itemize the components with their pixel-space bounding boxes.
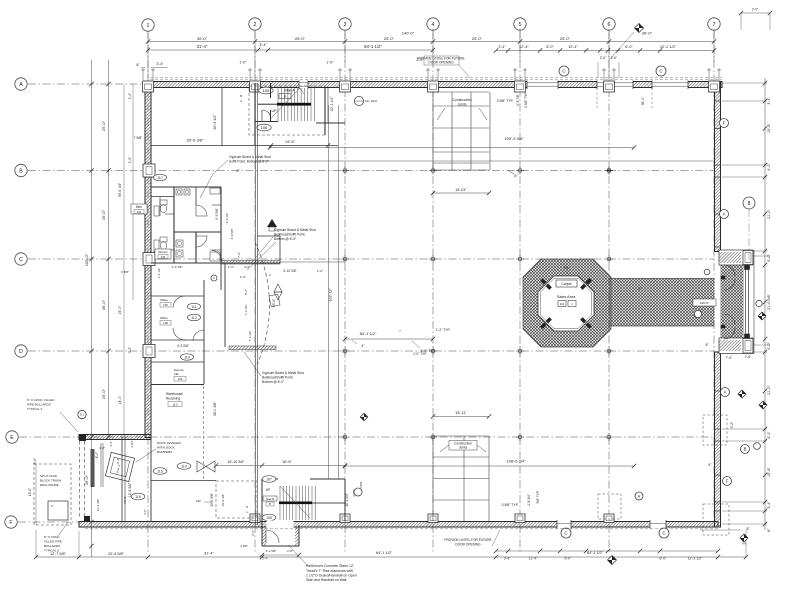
svg-text:6'-0": 6'-0" <box>565 557 573 561</box>
svg-text:7 5/8": 7 5/8" <box>134 136 144 140</box>
svg-text:7: 7 <box>713 22 716 28</box>
svg-text:4'-0": 4'-0" <box>99 446 105 450</box>
svg-text:Bottom @ 8'-0": Bottom @ 8'-0" <box>274 237 297 241</box>
svg-text:38'-0 3/8": 38'-0 3/8" <box>213 401 217 416</box>
svg-text:C: C <box>213 276 215 280</box>
svg-text:4 3/8": 4 3/8" <box>240 544 248 548</box>
svg-text:3 5/8": 3 5/8" <box>121 270 129 274</box>
svg-text:Reinforced Concrete Stairs 12": Reinforced Concrete Stairs 12" <box>306 564 355 568</box>
svg-text:21'-0": 21'-0" <box>767 385 771 395</box>
svg-text:19'-0": 19'-0" <box>118 305 122 314</box>
svg-text:15'-01": 15'-01" <box>455 188 467 192</box>
svg-text:19'-5": 19'-5" <box>285 139 296 144</box>
svg-text:14'-0": 14'-0" <box>118 395 122 404</box>
svg-text:3'-0 1/4": 3'-0 1/4" <box>225 213 229 224</box>
svg-text:10'-4": 10'-4" <box>568 45 578 49</box>
svg-text:8'-0": 8'-0" <box>33 458 37 464</box>
svg-text:30'-9 1/2": 30'-9 1/2" <box>213 114 217 130</box>
svg-text:117: 117 <box>157 176 163 180</box>
svg-text:WITH DOCK: WITH DOCK <box>157 446 176 450</box>
svg-text:2'-0": 2'-0" <box>143 509 147 515</box>
svg-text:Tread's 7" Rise Maximum with: Tread's 7" Rise Maximum with <box>306 569 353 573</box>
svg-text:FILLED PIPE: FILLED PIPE <box>44 540 62 544</box>
svg-text:108'-0": 108'-0" <box>700 301 709 305</box>
svg-text:3 5/8" TYP.: 3 5/8" TYP. <box>502 503 519 507</box>
svg-text:1 5/8" TYP.: 1 5/8" TYP. <box>524 92 528 108</box>
svg-text:Sec. Reinf.: Sec. Reinf. <box>365 99 378 103</box>
svg-text:1'-4 1/4": 1'-4 1/4" <box>157 268 161 279</box>
svg-text:Gypsum Board & Metal Stud: Gypsum Board & Metal Stud <box>262 371 304 375</box>
svg-text:Bulkhead/Soffit Point.: Bulkhead/Soffit Point. <box>262 376 294 380</box>
svg-text:Office: Office <box>160 316 168 320</box>
svg-text:64'-1 1/2": 64'-1 1/2" <box>364 44 382 49</box>
svg-text:Tile: Tile <box>563 266 568 270</box>
svg-text:101: 101 <box>560 302 565 306</box>
svg-text:12'-2 1/2": 12'-2 1/2" <box>688 557 704 561</box>
svg-text:1'-0": 1'-0" <box>240 275 246 279</box>
svg-text:21'-0": 21'-0" <box>767 209 771 219</box>
svg-text:10'-0 3/8": 10'-0 3/8" <box>221 494 225 507</box>
svg-text:3'-4": 3'-4" <box>498 45 506 49</box>
svg-text:Office: Office <box>160 298 168 302</box>
svg-text:108: 108 <box>163 321 168 325</box>
svg-text:1'-0": 1'-0" <box>326 61 334 65</box>
svg-text:4'-0": 4'-0" <box>767 342 771 350</box>
svg-text:15'-11": 15'-11" <box>455 411 467 415</box>
svg-text:25'-0": 25'-0" <box>101 120 106 131</box>
svg-text:1'-8 7/8": 1'-8 7/8" <box>516 94 520 106</box>
svg-text:C: C <box>659 69 662 74</box>
svg-text:B: B <box>240 94 242 98</box>
svg-text:C: C <box>662 531 665 536</box>
svg-text:12'-4": 12'-4" <box>529 557 539 561</box>
svg-text:Stair A: Stair A <box>285 89 296 93</box>
svg-text:3'-4": 3'-4" <box>504 557 511 561</box>
svg-text:36'-0": 36'-0" <box>642 31 653 36</box>
svg-text:Joints: Joints <box>459 446 468 450</box>
svg-text:3'-4": 3'-4" <box>767 97 771 105</box>
svg-text:6" O CONC. FILLED: 6" O CONC. FILLED <box>27 398 55 402</box>
svg-text:112: 112 <box>191 316 197 320</box>
svg-text:84'-1 1/2": 84'-1 1/2" <box>360 331 377 336</box>
svg-text:Side and Handrail on Wall.: Side and Handrail on Wall. <box>306 578 347 582</box>
svg-text:25'-0": 25'-0" <box>295 36 306 41</box>
svg-text:B: B <box>269 502 271 506</box>
svg-text:1'-2" TYP.: 1'-2" TYP. <box>436 328 451 332</box>
svg-text:Stair B: Stair B <box>266 497 275 501</box>
svg-text:105: 105 <box>263 88 270 93</box>
svg-text:104: 104 <box>137 210 142 214</box>
svg-text:2'-8": 2'-8" <box>287 549 293 553</box>
svg-text:Men: Men <box>136 205 142 209</box>
svg-text:Construction: Construction <box>452 98 471 102</box>
svg-text:4'-2": 4'-2" <box>730 422 734 428</box>
svg-text:113: 113 <box>184 355 190 359</box>
svg-text:DOOR OPENING: DOOR OPENING <box>455 543 481 547</box>
svg-text:25'-0": 25'-0" <box>472 36 483 41</box>
svg-text:64'-1 1/2": 64'-1 1/2" <box>376 551 393 555</box>
svg-text:D: D <box>19 349 23 355</box>
svg-text:30'-0": 30'-0" <box>197 36 208 41</box>
svg-text:3'-4": 3'-4" <box>262 557 268 561</box>
svg-text:6'-0": 6'-0" <box>660 557 668 561</box>
svg-text:C: C <box>562 69 565 74</box>
svg-text:59'-6 1/4": 59'-6 1/4" <box>118 182 122 197</box>
svg-text:UP: UP <box>266 488 270 492</box>
svg-text:111: 111 <box>191 305 196 309</box>
svg-text:103: 103 <box>161 255 166 259</box>
svg-text:107: 107 <box>266 477 272 481</box>
svg-text:3'-4": 3'-4" <box>259 43 267 47</box>
svg-text:6'-0": 6'-0" <box>625 45 633 49</box>
svg-text:3 5/8": 3 5/8" <box>359 481 363 489</box>
svg-text:Women: Women <box>158 250 168 254</box>
svg-text:1'-0": 1'-0" <box>128 156 132 163</box>
svg-text:TYPICAL 4: TYPICAL 4 <box>27 407 42 411</box>
svg-text:35'-0": 35'-0" <box>101 299 106 310</box>
svg-text:2'-0": 2'-0" <box>600 56 607 60</box>
svg-text:1'-8 1/4": 1'-8 1/4" <box>527 494 531 506</box>
svg-text:13'-0 3/8": 13'-0 3/8" <box>210 493 214 506</box>
svg-text:PIPE BOLLARDS: PIPE BOLLARDS <box>27 403 51 407</box>
svg-text:B: B <box>19 168 23 174</box>
svg-text:ENCLOSURE: ENCLOSURE <box>40 483 59 487</box>
svg-text:20'-6 5/8": 20'-6 5/8" <box>108 552 125 556</box>
svg-text:12'-3 3/8": 12'-3 3/8" <box>96 499 100 512</box>
svg-text:12'-7 5/8": 12'-7 5/8" <box>50 552 67 556</box>
svg-text:102'-11": 102'-11" <box>329 288 333 302</box>
svg-text:5'-2": 5'-2" <box>244 289 248 295</box>
svg-text:4'-3 5/8": 4'-3 5/8" <box>177 344 190 348</box>
svg-text:7'-3 1/2": 7'-3 1/2" <box>244 305 248 316</box>
svg-text:3'-0": 3'-0" <box>128 346 132 353</box>
svg-text:10'-1 1/4": 10'-1 1/4" <box>330 96 334 112</box>
svg-text:10'-1 1/4": 10'-1 1/4" <box>345 493 349 506</box>
svg-text:TYPICAL 5: TYPICAL 5 <box>44 549 59 553</box>
svg-text:10'-0": 10'-0" <box>123 496 127 504</box>
svg-text:5/8" TYP.: 5/8" TYP. <box>536 490 540 503</box>
svg-text:Joints: Joints <box>458 103 467 107</box>
svg-text:1'-4": 1'-4" <box>128 92 132 99</box>
svg-text:4'-2": 4'-2" <box>767 431 771 439</box>
svg-text:2'-6": 2'-6" <box>745 355 753 359</box>
svg-text:Bulkhead/Soffit Point.: Bulkhead/Soffit Point. <box>274 233 306 237</box>
svg-text:4'-0": 4'-0" <box>767 254 771 262</box>
svg-text:DOCK LEVELER: DOCK LEVELER <box>157 441 181 445</box>
svg-text:3'-4": 3'-4" <box>156 62 164 66</box>
svg-text:116: 116 <box>135 495 141 499</box>
svg-text:1'-0" TYP.: 1'-0" TYP. <box>413 352 427 356</box>
svg-text:DOOR OPENING: DOOR OPENING <box>428 61 454 65</box>
svg-text:102: 102 <box>163 303 168 307</box>
svg-text:110: 110 <box>173 403 178 407</box>
svg-text:PROVIDE LINTEL FOR FUTURE: PROVIDE LINTEL FOR FUTURE <box>444 538 491 542</box>
svg-text:E: E <box>10 435 14 441</box>
svg-text:114: 114 <box>181 464 187 468</box>
svg-text:C: C <box>269 273 271 277</box>
svg-text:4'-1 5/8": 4'-1 5/8" <box>266 549 277 553</box>
svg-text:7'-0": 7'-0" <box>726 356 734 360</box>
svg-text:A: A <box>19 82 23 88</box>
svg-text:Gypsum Board & Metal Stud: Gypsum Board & Metal Stud <box>274 228 316 232</box>
svg-text:File: File <box>174 372 179 376</box>
svg-text:Carpet: Carpet <box>561 282 571 286</box>
svg-text:109: 109 <box>178 377 183 381</box>
svg-text:Sales Area: Sales Area <box>557 295 576 299</box>
svg-text:BUMPERS: BUMPERS <box>157 450 172 454</box>
svg-text:108'-6 3/4": 108'-6 3/4" <box>506 459 526 464</box>
svg-text:Soffit Point. Bottom @ 8'-0": Soffit Point. Bottom @ 8'-0" <box>229 160 270 164</box>
svg-text:BLOCK TRASH: BLOCK TRASH <box>40 479 61 483</box>
svg-text:1 1/2"O Guard/Handrail on Open: 1 1/2"O Guard/Handrail on Open <box>306 574 357 578</box>
svg-text:105'-0": 105'-0" <box>84 253 89 266</box>
svg-text:3: 3 <box>344 22 347 28</box>
svg-text:1'-0": 1'-0" <box>239 61 247 65</box>
svg-text:31'-4": 31'-4" <box>204 552 214 556</box>
svg-text:15'-10 3/8": 15'-10 3/8" <box>227 460 245 464</box>
svg-text:9'-9 5/8": 9'-9 5/8" <box>215 208 219 220</box>
svg-text:F: F <box>726 479 729 484</box>
svg-text:12'-2 1/2": 12'-2 1/2" <box>660 45 677 49</box>
svg-text:SPLIT FACE: SPLIT FACE <box>40 474 57 478</box>
svg-text:115: 115 <box>157 469 163 473</box>
svg-text:25'-0": 25'-0" <box>101 388 106 399</box>
svg-text:4: 4 <box>432 22 435 28</box>
svg-text:6: 6 <box>608 22 611 28</box>
svg-text:2'-0": 2'-0" <box>251 530 255 536</box>
svg-text:3 1/4": 3 1/4" <box>130 440 134 447</box>
svg-text:19'-8": 19'-8" <box>767 123 771 133</box>
svg-text:3'-4": 3'-4" <box>116 458 120 464</box>
svg-text:1'-0": 1'-0" <box>228 265 234 269</box>
svg-text:31'-4": 31'-4" <box>197 44 208 49</box>
svg-text:25'-0": 25'-0" <box>384 36 395 41</box>
svg-text:8: 8 <box>748 201 751 207</box>
svg-text:33'-0": 33'-0" <box>272 299 276 307</box>
svg-text:C: C <box>19 257 23 263</box>
svg-text:4'-0": 4'-0" <box>95 451 99 459</box>
svg-text:3'-4": 3'-4" <box>767 501 771 509</box>
svg-text:F: F <box>9 520 12 526</box>
svg-text:12'-3 3/8": 12'-3 3/8" <box>128 482 132 497</box>
svg-text:BOLLARDS: BOLLARDS <box>44 544 60 548</box>
svg-text:1'-4": 1'-4" <box>109 441 113 447</box>
svg-text:4'-2": 4'-2" <box>767 163 771 171</box>
svg-text:100'-9 3/4": 100'-9 3/4" <box>504 136 524 141</box>
svg-text:36'-0": 36'-0" <box>641 96 645 105</box>
svg-text:2: 2 <box>254 22 257 28</box>
svg-text:D.1: D.1 <box>80 412 85 416</box>
svg-text:7'-0": 7'-0" <box>237 252 241 258</box>
svg-text:C: C <box>564 531 567 536</box>
svg-text:4'-9 5/8": 4'-9 5/8" <box>230 229 234 240</box>
svg-text:2'-0": 2'-0" <box>752 8 758 12</box>
svg-text:7'-3 1/2": 7'-3 1/2" <box>248 331 252 342</box>
svg-text:F: F <box>723 121 726 126</box>
svg-text:Warehouse/: Warehouse/ <box>166 392 183 396</box>
svg-text:B: B <box>744 447 747 452</box>
svg-text:106: 106 <box>261 125 268 130</box>
svg-text:D: D <box>246 505 248 509</box>
svg-text:3 5/8" TYP.: 3 5/8" TYP. <box>497 99 514 103</box>
svg-text:2'-0 1/8": 2'-0 1/8" <box>172 265 183 269</box>
svg-text:5: 5 <box>519 22 522 28</box>
svg-text:21'-0 5/8": 21'-0 5/8" <box>767 293 771 310</box>
svg-text:140'-0": 140'-0" <box>402 31 415 36</box>
svg-text:Gypsum Board & Metal Stud: Gypsum Board & Metal Stud <box>229 155 271 159</box>
svg-text:6'-0": 6'-0" <box>546 45 554 49</box>
svg-text:64'-1 1/2": 64'-1 1/2" <box>587 551 604 555</box>
svg-text:16'-5": 16'-5" <box>282 460 292 464</box>
svg-text:8": 8" <box>709 463 712 467</box>
svg-text:A-9: A-9 <box>742 542 747 546</box>
svg-text:25'-0": 25'-0" <box>101 209 106 220</box>
svg-text:25'-0": 25'-0" <box>560 36 571 41</box>
svg-text:A: A <box>723 212 726 217</box>
svg-text:16'-0": 16'-0" <box>28 488 32 496</box>
svg-text:UP: UP <box>272 109 278 113</box>
svg-text:12'-4": 12'-4" <box>519 45 529 49</box>
svg-text:29'-9 3/8": 29'-9 3/8" <box>187 138 204 143</box>
svg-text:4'-0": 4'-0" <box>244 265 250 269</box>
svg-text:19'-8": 19'-8" <box>767 467 771 477</box>
svg-text:Receiving: Receiving <box>166 397 180 401</box>
svg-text:1: 1 <box>147 23 150 29</box>
svg-text:5'-10 3/8": 5'-10 3/8" <box>283 269 296 273</box>
svg-text:108: 108 <box>266 516 272 520</box>
svg-text:1'-2": 1'-2" <box>317 269 323 273</box>
svg-text:A: A <box>724 390 727 395</box>
svg-text:Bottom @ 8'-0": Bottom @ 8'-0" <box>262 380 285 384</box>
